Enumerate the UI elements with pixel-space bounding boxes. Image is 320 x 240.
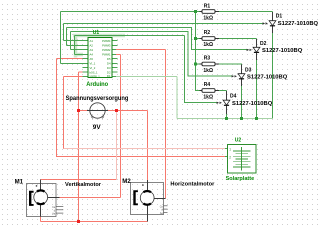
svg-text:S1227-1010BQ: S1227-1010BQ [278, 21, 318, 27]
svg-text:D2: D2 [260, 41, 267, 47]
svg-text:D1: D1 [276, 14, 283, 20]
svg-text:S1227-1010BQ: S1227-1010BQ [247, 75, 287, 81]
svg-text:A1: A1 [90, 39, 94, 43]
svg-text:2: 2 [229, 155, 231, 159]
svg-text:R3: R3 [204, 56, 211, 62]
svg-text:1kΩ: 1kΩ [203, 94, 213, 100]
svg-text:PWM4: PWM4 [102, 39, 111, 43]
svg-text:1: 1 [229, 147, 231, 151]
svg-text:D3: D3 [245, 67, 252, 73]
svg-text:PWM1: PWM1 [102, 52, 111, 56]
svg-text:A4: A4 [90, 52, 94, 56]
svg-text:1kΩ: 1kΩ [203, 68, 213, 74]
svg-text:D3: D3 [107, 66, 111, 70]
svg-text:R1: R1 [204, 3, 211, 9]
svg-text:A2: A2 [90, 43, 94, 47]
svg-text:M1: M1 [15, 178, 24, 185]
svg-text:PWM3: PWM3 [102, 43, 111, 47]
svg-text:A3: A3 [90, 48, 94, 52]
svg-text:R2: R2 [204, 30, 211, 36]
svg-text:S1227-1010BQ: S1227-1010BQ [232, 101, 272, 107]
svg-text:1kΩ: 1kΩ [203, 42, 213, 48]
svg-text:9V: 9V [93, 124, 102, 131]
svg-text:S1227-1010BQ: S1227-1010BQ [262, 48, 302, 54]
svg-text:PWM2: PWM2 [102, 48, 111, 52]
svg-text:R4: R4 [204, 82, 211, 88]
svg-text:U1: U1 [93, 30, 100, 36]
svg-text:M2: M2 [122, 178, 131, 185]
svg-text:Spannungsversorgung: Spannungsversorgung [66, 95, 129, 102]
svg-text:vm0m_t: vm0m_t [90, 74, 100, 78]
svg-text:D5: D5 [107, 57, 111, 61]
svg-text:D4: D4 [107, 61, 111, 65]
svg-text:U2: U2 [235, 138, 242, 144]
svg-text:Solarplatte: Solarplatte [226, 176, 255, 182]
svg-text:VI_2: VI_2 [90, 66, 96, 70]
svg-text:A5: A5 [90, 57, 94, 61]
svg-text:D4: D4 [230, 94, 237, 100]
svg-text:Horizontalmotor: Horizontalmotor [170, 181, 215, 187]
svg-text:D1: D1 [107, 74, 111, 78]
svg-text:Arduino: Arduino [86, 82, 108, 88]
svg-text:1kΩ: 1kΩ [203, 15, 213, 21]
svg-text:Vertikalmotor: Vertikalmotor [65, 182, 102, 188]
svg-text:VI_1: VI_1 [90, 61, 96, 65]
